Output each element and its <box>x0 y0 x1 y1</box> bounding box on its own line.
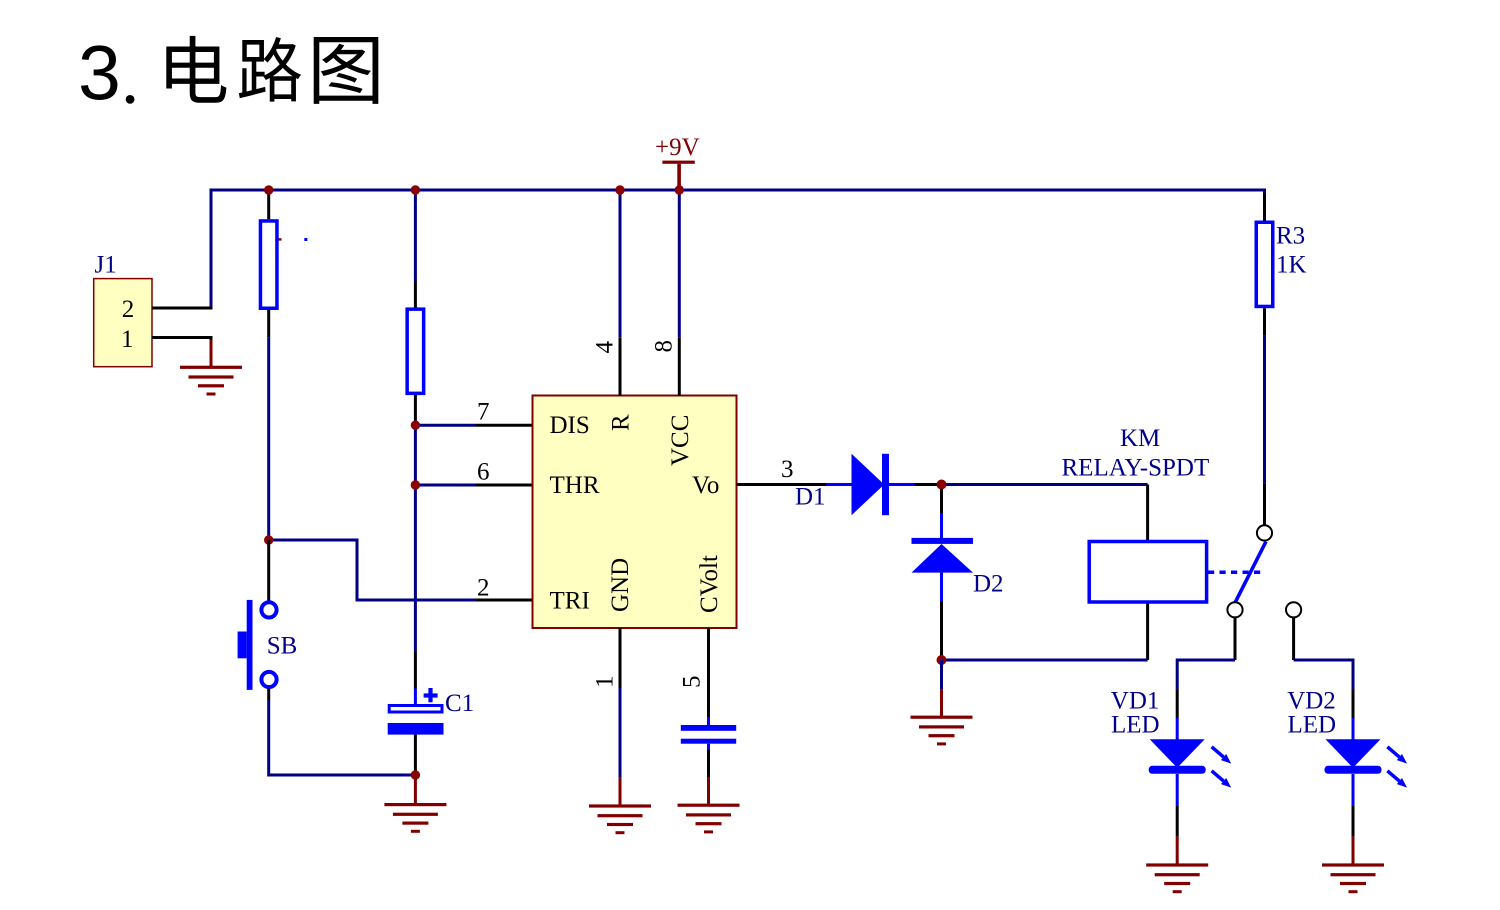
svg-text:GND: GND <box>607 558 634 612</box>
stray mark near R1 <box>279 238 308 241</box>
power +9V symbol <box>655 134 700 190</box>
wire rail to R2 <box>414 190 417 308</box>
resistor R3 <box>1256 222 1306 306</box>
wire NC contact to VD2 <box>1294 618 1353 741</box>
relay switch NC contact <box>1286 602 1301 617</box>
wire D1 to node <box>915 483 942 486</box>
ground at J1 <box>180 340 242 396</box>
title "3. dianlutu" <box>78 30 378 116</box>
wire rail to R1 <box>267 192 270 219</box>
node dot rail pin8 <box>675 185 684 194</box>
op-amp/timer IC U1 box <box>533 396 737 629</box>
ground at D2 <box>911 716 973 746</box>
LED VD2 <box>1287 688 1407 788</box>
wire SB node to pin2 TRI <box>269 540 533 602</box>
relay switch common contact <box>1257 525 1272 540</box>
diode D2 <box>912 538 1004 602</box>
wire D2 to node <box>940 602 943 660</box>
wire pin3 Vo <box>737 456 827 511</box>
node dot rail R2 <box>411 185 420 194</box>
wire pin4 R <box>592 190 621 396</box>
relay KM coil <box>1062 425 1210 602</box>
svg-text:8: 8 <box>651 340 678 353</box>
svg-text:R: R <box>608 414 635 431</box>
wire D2 node to ground <box>940 660 943 717</box>
pushbutton SB <box>238 600 298 690</box>
wire SB node to button <box>267 540 270 601</box>
wire R2 to DIS node <box>414 395 417 425</box>
relay dashed link <box>1208 571 1262 575</box>
svg-text:VCC: VCC <box>667 415 694 466</box>
node dot D2 ground <box>937 655 947 665</box>
wire node to relay coil top <box>942 485 1148 542</box>
svg-text:RELAY-SPDT: RELAY-SPDT <box>1062 455 1210 482</box>
svg-text:3: 3 <box>78 30 121 116</box>
resistor R1 <box>260 221 277 308</box>
node dot pin6 <box>411 480 420 489</box>
svg-text:1: 1 <box>592 676 619 689</box>
svg-text:4: 4 <box>592 341 619 354</box>
wire R1 to SB node <box>267 310 270 540</box>
svg-text:+9V: +9V <box>655 134 700 161</box>
wire rail to R3 <box>1263 194 1266 221</box>
wire VD2 to ground <box>1352 774 1355 864</box>
svg-text:2: 2 <box>122 296 135 323</box>
svg-text:D2: D2 <box>973 570 1004 597</box>
svg-text:C1: C1 <box>445 690 474 717</box>
wire pin7 DIS <box>415 399 532 426</box>
wire pin8 VCC <box>651 190 680 396</box>
wire DIS node to THR node to C1 <box>414 425 417 652</box>
svg-text:VD2: VD2 <box>1287 688 1336 715</box>
ground at C1 <box>384 775 446 833</box>
capacitor C1 <box>388 688 474 735</box>
wire node to D2 <box>940 489 943 538</box>
svg-text:SB: SB <box>267 633 298 660</box>
svg-text:VD1: VD1 <box>1111 688 1160 715</box>
svg-text:1K: 1K <box>1276 252 1307 279</box>
svg-text:CVolt: CVolt <box>696 555 723 613</box>
ground at pin1 <box>589 804 651 834</box>
wire pin1 GND <box>592 628 621 805</box>
svg-text:J1: J1 <box>95 252 117 279</box>
wire C1 to ground node <box>414 735 417 775</box>
svg-text:D1: D1 <box>795 484 826 511</box>
svg-text:KM: KM <box>1120 425 1160 452</box>
node dot C1 ground <box>411 770 420 779</box>
relay switch NO contact <box>1227 602 1242 617</box>
wire C2 to ground <box>707 744 710 805</box>
LED VD1 <box>1111 688 1231 788</box>
svg-text:LED: LED <box>1111 712 1160 739</box>
wire relay coil bottom <box>942 602 1148 660</box>
svg-text:Vo: Vo <box>692 472 719 499</box>
resistor R2 <box>407 309 424 393</box>
ground at VD2 <box>1322 863 1384 893</box>
svg-text:DIS: DIS <box>550 412 590 439</box>
wire +9V power rail <box>211 190 1265 308</box>
svg-text:LED: LED <box>1288 712 1337 739</box>
svg-text:1: 1 <box>121 326 134 353</box>
node dot rail R1 <box>264 185 273 194</box>
capacitor C2 plates <box>681 725 736 744</box>
svg-text:R3: R3 <box>1276 223 1305 250</box>
node dot SB top <box>264 535 273 544</box>
wire VD1 to ground <box>1176 774 1179 864</box>
svg-text:TRI: TRI <box>550 588 590 615</box>
node dot D1 out <box>937 480 947 490</box>
connector J1 <box>94 252 152 367</box>
wire pin5 CVolt <box>679 628 709 725</box>
wire pin6 THR <box>415 459 532 486</box>
node dot pin7 <box>411 421 420 430</box>
svg-text:3: 3 <box>781 456 794 483</box>
svg-text:6: 6 <box>477 459 490 486</box>
wire R3 to switch common <box>1263 308 1266 525</box>
wire J1 pin1 <box>152 338 211 367</box>
relay switch lever <box>1235 542 1266 603</box>
wire SB bottom to C1 node <box>269 689 416 776</box>
ground at VD1 <box>1146 863 1208 893</box>
svg-text:5: 5 <box>679 676 706 689</box>
wire J1 pin2 <box>152 307 213 310</box>
wire NO contact to VD1 <box>1177 618 1235 741</box>
diode D1 <box>826 454 915 515</box>
node dot rail pin4 <box>615 185 624 194</box>
svg-text:7: 7 <box>477 399 490 426</box>
ground at C2 <box>678 804 740 834</box>
svg-text:2: 2 <box>477 575 490 602</box>
svg-text:THR: THR <box>550 472 600 499</box>
